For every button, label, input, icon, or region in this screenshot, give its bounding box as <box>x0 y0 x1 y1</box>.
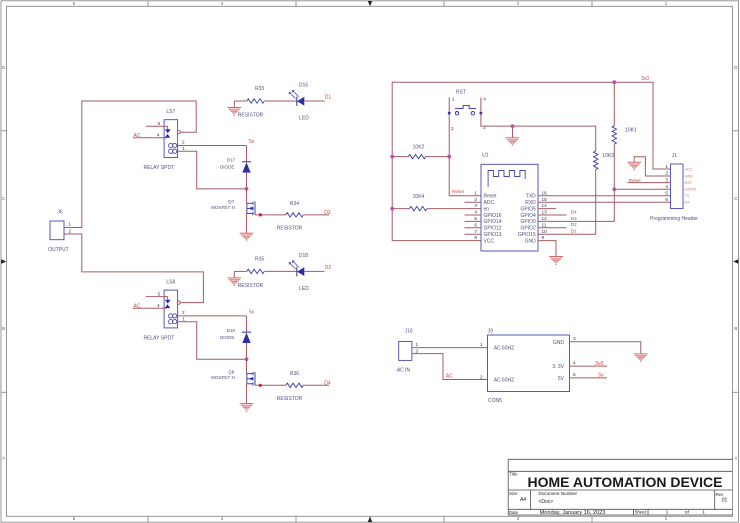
J1 pin names <box>685 167 697 204</box>
svg-text:Q8: Q8 <box>228 369 235 374</box>
wire diode to junction (ch2) <box>246 343 248 359</box>
svg-text:5v: 5v <box>598 373 604 379</box>
svg-text:Monday, January 16, 2023: Monday, January 16, 2023 <box>540 510 606 516</box>
svg-text:5: 5 <box>665 190 668 195</box>
svg-text:D4: D4 <box>324 380 331 386</box>
svg-text:D1: D1 <box>325 95 332 101</box>
svg-text:3: 3 <box>474 203 477 208</box>
svg-text:Sheet: Sheet <box>635 510 647 515</box>
svg-text:LS8: LS8 <box>166 279 175 285</box>
connector J9 power module <box>480 329 576 404</box>
connector J10 <box>397 329 419 374</box>
svg-text:TX: TX <box>685 194 690 198</box>
wire J6 pin2 to LS8 pin3 <box>64 234 203 303</box>
wire R35 to LED D18 <box>265 270 297 272</box>
svg-text:10: 10 <box>542 229 548 234</box>
svg-text:2: 2 <box>69 229 72 234</box>
svg-text:1: 1 <box>69 222 72 227</box>
LED D16 <box>289 83 309 122</box>
svg-text:D16: D16 <box>299 83 308 89</box>
transistor Q7 <box>211 199 255 215</box>
svg-text:6: 6 <box>665 197 668 202</box>
svg-text:GPIO5: GPIO5 <box>521 206 537 212</box>
junction node 10K2/RST <box>447 155 451 159</box>
junction node drain ch1 <box>245 187 249 191</box>
svg-text:Q7: Q7 <box>228 199 235 204</box>
wire U1 TXD to J1 TX <box>538 195 671 197</box>
wire Q8 source to ground <box>246 384 248 404</box>
wire 3v3 top rail <box>392 82 670 169</box>
svg-text:GPIO0: GPIO0 <box>521 219 537 225</box>
svg-text:D19: D19 <box>227 328 236 333</box>
svg-text:8: 8 <box>474 235 477 240</box>
wire J9 pin3 to ground <box>570 342 641 354</box>
junction node drain ch2 <box>245 357 249 361</box>
svg-text:A4: A4 <box>520 497 526 503</box>
svg-text:Rev: Rev <box>716 492 725 497</box>
LED D18 <box>289 253 309 292</box>
svg-text:C: C <box>2 196 5 201</box>
svg-text:D17: D17 <box>227 158 236 163</box>
junction node RST gnd tap <box>511 124 515 128</box>
svg-text:RXD: RXD <box>525 200 536 206</box>
svg-text:J6: J6 <box>57 210 63 216</box>
svg-text:5: 5 <box>573 372 576 377</box>
wire LS7 pin2 to 5v <box>178 145 247 147</box>
svg-text:B: B <box>734 326 737 331</box>
diode D17 <box>220 158 251 173</box>
resistor 10K4 <box>392 194 481 211</box>
svg-text:GPIO14: GPIO14 <box>484 219 502 225</box>
svg-text:U1: U1 <box>482 153 489 159</box>
svg-text:HOME AUTOMATION DEVICE: HOME AUTOMATION DEVICE <box>528 474 723 490</box>
wire R36 to D4 <box>303 384 329 386</box>
resistor R34 <box>277 201 304 232</box>
wire junction to Q8 drain <box>246 359 248 373</box>
svg-text:4: 4 <box>665 184 668 189</box>
connector J6 <box>48 210 71 254</box>
svg-text:MOSFET N: MOSFET N <box>211 205 235 210</box>
svg-text:GPIO4: GPIO4 <box>521 213 537 219</box>
svg-text:AC 50HZ: AC 50HZ <box>494 377 515 383</box>
svg-text:15: 15 <box>542 197 548 202</box>
svg-text:Programming Header: Programming Header <box>650 216 698 222</box>
svg-text:3: 3 <box>573 336 576 341</box>
svg-text:J9: J9 <box>488 329 494 335</box>
wire 10K1 junction to U1 GPIO0 <box>538 189 614 221</box>
junction node 3v3/10K1 <box>612 80 616 84</box>
resistor R33 <box>238 86 265 118</box>
svg-text:RESISTOR: RESISTOR <box>277 226 303 232</box>
svg-text:2: 2 <box>182 310 185 315</box>
wire J1 pin3 Reset stub <box>628 182 671 184</box>
svg-text:D2: D2 <box>325 265 332 271</box>
U1 left pin numbers <box>474 190 477 240</box>
svg-text:GPIO0: GPIO0 <box>685 188 697 192</box>
U1 right pin numbers <box>542 190 548 240</box>
svg-text:AC: AC <box>134 133 141 139</box>
svg-text:RESISTOR: RESISTOR <box>277 396 303 402</box>
wire U1 GPIO2 / D2 <box>538 227 567 229</box>
svg-text:4: 4 <box>157 303 160 308</box>
svg-text:en: en <box>484 206 490 212</box>
svg-text:MOSFET N: MOSFET N <box>211 375 235 380</box>
svg-text:Date: Date <box>509 510 519 515</box>
svg-text:DIODE: DIODE <box>220 335 235 340</box>
svg-text:D4: D4 <box>571 209 577 215</box>
U1 left pin names <box>484 194 502 245</box>
svg-text:AC: AC <box>446 374 453 380</box>
svg-text:1: 1 <box>452 97 455 102</box>
svg-text:R34: R34 <box>290 201 299 207</box>
svg-text:C: C <box>734 196 737 201</box>
svg-text:GPIO15: GPIO15 <box>518 232 536 238</box>
svg-text:RELAY SPDT: RELAY SPDT <box>143 165 174 171</box>
svg-text:TXD: TXD <box>526 194 536 200</box>
svg-text:RESISTOR: RESISTOR <box>238 283 264 289</box>
svg-text:6: 6 <box>474 222 477 227</box>
ground J1 <box>627 162 641 170</box>
junction dot Q7 gate <box>259 213 262 216</box>
wire 3v3 left rail <box>392 157 481 241</box>
wire Q8 gate <box>255 384 286 386</box>
wire J1 pin2 to ground <box>634 157 670 176</box>
svg-text:R36: R36 <box>290 371 299 377</box>
svg-text:D2: D2 <box>571 222 577 228</box>
svg-text:10K2: 10K2 <box>413 144 425 150</box>
svg-text:1: 1 <box>666 510 669 516</box>
switch RST <box>448 90 486 131</box>
svg-text:1: 1 <box>416 342 419 347</box>
svg-text:AC: AC <box>134 304 141 310</box>
svg-text:11: 11 <box>542 222 547 227</box>
wire R34 to D3 <box>303 214 329 216</box>
ground Q8 <box>240 404 254 412</box>
wire diode to junction (ch1) <box>246 173 248 189</box>
svg-text:10K1: 10K1 <box>625 128 637 134</box>
svg-text:Reset: Reset <box>484 194 498 200</box>
svg-text:3v3: 3v3 <box>641 76 649 82</box>
wire Q7 source to ground <box>246 213 248 233</box>
svg-text:GPIO12: GPIO12 <box>484 226 502 232</box>
svg-text:D3: D3 <box>571 216 577 222</box>
svg-text:VCC: VCC <box>685 167 693 171</box>
svg-text:2: 2 <box>182 140 185 145</box>
svg-text:Document Number: Document Number <box>539 491 578 496</box>
svg-text:RST: RST <box>685 181 693 185</box>
wire RST pin3 to gnd and 10K3 <box>481 113 596 151</box>
wire 5v vertical (ch2) <box>246 316 248 332</box>
ground J9 <box>634 354 648 362</box>
wire ground to R35 <box>234 270 247 272</box>
svg-text:GND: GND <box>685 174 694 178</box>
wire junction to Q7 drain <box>246 189 248 203</box>
svg-text:RX: RX <box>685 201 691 205</box>
transistor Q8 <box>211 369 255 385</box>
svg-text:4: 4 <box>474 210 477 215</box>
svg-text:GPIO13: GPIO13 <box>484 232 502 238</box>
svg-text:5v: 5v <box>249 309 255 315</box>
ground R33 <box>228 101 242 115</box>
svg-text:1: 1 <box>665 164 668 169</box>
junction node 10K1/J1 pin4 <box>612 187 616 191</box>
wire J9 pin5 5v stub <box>570 377 608 379</box>
wire ground to R33 <box>234 100 247 102</box>
svg-text:A: A <box>2 456 5 461</box>
svg-text:1: 1 <box>182 316 185 321</box>
svg-text:<Doc>: <Doc> <box>539 499 554 505</box>
svg-text:2: 2 <box>416 349 419 354</box>
svg-text:of: of <box>685 510 690 516</box>
svg-text:RST: RST <box>456 90 466 96</box>
svg-text:B: B <box>2 326 5 331</box>
svg-text:3. 3V: 3. 3V <box>552 364 564 370</box>
svg-text:AC IN: AC IN <box>397 368 411 374</box>
svg-text:D1: D1 <box>571 229 577 235</box>
U1 left pin stubs <box>465 202 482 234</box>
svg-text:16: 16 <box>542 190 548 195</box>
junction node rail/10K4 <box>390 207 394 211</box>
svg-text:Size: Size <box>509 491 518 496</box>
resistor R35 <box>238 256 265 288</box>
svg-text:R35: R35 <box>255 256 264 262</box>
stub U1 GPIO5 <box>538 208 556 210</box>
svg-text:3v3: 3v3 <box>595 361 603 367</box>
svg-text:DIODE: DIODE <box>220 164 235 169</box>
svg-text:5: 5 <box>474 216 477 221</box>
svg-text:2: 2 <box>474 197 477 202</box>
svg-text:13: 13 <box>542 210 548 215</box>
wire LS7 pin1 to drain node <box>178 151 247 189</box>
svg-text:GND: GND <box>553 340 565 346</box>
junction node rail/10K2 <box>390 155 394 159</box>
IC U1 ESP module <box>481 153 538 251</box>
svg-text:LED: LED <box>299 286 309 292</box>
svg-text:7: 7 <box>474 229 477 234</box>
wire LS8 pin2 to 5v <box>178 315 247 317</box>
wire U1 GPIO4 / D4 <box>538 214 567 216</box>
svg-text:12: 12 <box>542 216 548 221</box>
svg-text:CON5: CON5 <box>488 398 502 404</box>
U1 right pin names <box>518 194 536 245</box>
relay LS8 <box>133 279 185 341</box>
svg-text:2: 2 <box>451 126 454 131</box>
svg-text:1: 1 <box>702 510 705 516</box>
svg-text:Reset: Reset <box>629 178 642 183</box>
wire Q7 gate <box>255 214 286 216</box>
svg-text:GPIO16: GPIO16 <box>484 213 502 219</box>
svg-text:R33: R33 <box>255 86 264 92</box>
TITLE BLOCK <box>508 459 732 515</box>
svg-text:D: D <box>2 65 5 70</box>
svg-text:GPIO2: GPIO2 <box>521 226 537 232</box>
wire R33 to LED D16 <box>265 100 297 102</box>
J1 pin numbers <box>665 164 668 202</box>
wire J10 pin1 to J9 pin1 <box>412 347 488 349</box>
ground RST <box>506 126 520 146</box>
resistor 10K1 <box>612 82 637 189</box>
wire LED D16 to D1 <box>304 100 324 102</box>
svg-text:RELAY SPDT: RELAY SPDT <box>143 335 174 341</box>
diode D19 <box>220 328 251 343</box>
svg-text:J10: J10 <box>404 329 412 335</box>
wire U1 GND pin9 <box>538 241 556 257</box>
junction dot Q8 gate <box>259 384 262 387</box>
wire J10 pin2 to J9 pin2 <box>412 354 488 380</box>
svg-text:A: A <box>734 456 737 461</box>
ground U1 <box>549 257 563 265</box>
ground R35 <box>228 271 242 285</box>
svg-text:5: 5 <box>158 121 161 126</box>
wire RST pin2 to U1 Reset <box>449 113 481 196</box>
svg-text:4: 4 <box>483 97 486 102</box>
wire LED D18 to D2 <box>304 270 324 272</box>
connector J1 <box>650 153 698 222</box>
svg-text:10K3: 10K3 <box>602 153 614 159</box>
wire J6 pin1 to LS7 pin3 <box>64 101 196 228</box>
svg-text:AC 50HZ: AC 50HZ <box>494 345 515 351</box>
svg-text:2: 2 <box>665 171 668 176</box>
svg-text:ADC: ADC <box>484 200 495 206</box>
svg-text:D3: D3 <box>324 210 331 216</box>
svg-text:01: 01 <box>722 498 728 504</box>
wire J9 pin4 3v3 stub <box>570 365 608 367</box>
svg-text:4: 4 <box>573 360 576 365</box>
resistor 10K2 <box>392 144 449 159</box>
wire 5v vertical (ch1) <box>246 146 248 162</box>
svg-text:Title: Title <box>509 472 518 477</box>
svg-text:VCC: VCC <box>484 238 495 244</box>
svg-text:D18: D18 <box>299 253 308 259</box>
svg-text:1: 1 <box>474 190 477 195</box>
svg-text:GND: GND <box>525 238 537 244</box>
svg-text:OUTPUT: OUTPUT <box>48 247 69 253</box>
wire U1 RXD to J1 RX <box>538 201 671 203</box>
wire J1 pin4 to junction <box>614 188 670 190</box>
wire LS8 pin1 to drain node <box>178 322 247 360</box>
svg-text:LS7: LS7 <box>166 109 175 115</box>
svg-text:4: 4 <box>157 132 160 137</box>
svg-text:D: D <box>734 65 737 70</box>
svg-text:J1: J1 <box>672 153 678 159</box>
svg-text:1: 1 <box>480 342 483 347</box>
svg-text:Reset: Reset <box>452 189 465 194</box>
svg-text:5v: 5v <box>249 139 255 145</box>
svg-text:RESISTOR: RESISTOR <box>238 112 264 118</box>
svg-text:5V: 5V <box>558 376 565 382</box>
svg-text:LED: LED <box>299 116 309 122</box>
ground Q7 <box>240 233 254 241</box>
svg-text:3: 3 <box>665 177 668 182</box>
resistor R36 <box>277 371 304 402</box>
svg-text:2: 2 <box>480 374 483 379</box>
svg-text:10K4: 10K4 <box>413 194 425 200</box>
wire 10K3 to U1 GPIO15 <box>538 170 596 235</box>
svg-text:1: 1 <box>182 146 185 151</box>
relay LS7 <box>133 109 185 171</box>
svg-text:14: 14 <box>542 203 548 208</box>
svg-text:5: 5 <box>158 291 161 296</box>
resistor 10K3 <box>594 151 615 169</box>
svg-text:9: 9 <box>542 235 545 240</box>
